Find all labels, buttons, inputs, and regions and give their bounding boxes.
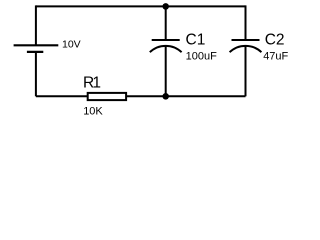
wire left branch lower	[35, 52, 37, 96]
wire top rail	[36, 5, 246, 7]
capacitor C1 curved plate	[150, 46, 182, 52]
svg-text:R1: R1	[83, 75, 100, 92]
wire bottom rail	[36, 95, 246, 97]
wire left branch upper	[35, 5, 37, 44]
battery V1 positive plate	[14, 44, 59, 46]
capacitor C1 top plate	[152, 39, 180, 41]
capacitor C2 curved plate	[230, 46, 262, 52]
capacitor C2 top plate	[232, 39, 260, 41]
node junction dot top	[162, 3, 169, 10]
wire right branch lower	[245, 46, 247, 97]
node junction dot bottom	[162, 93, 169, 100]
wire C1 branch lower	[165, 46, 167, 97]
wire C1 branch upper	[165, 6, 167, 40]
svg-text:47uF: 47uF	[263, 51, 288, 63]
svg-text:C2: C2	[265, 31, 285, 48]
battery V1 negative plate	[27, 51, 43, 53]
svg-text:C1: C1	[186, 32, 206, 49]
resistor R1	[88, 93, 126, 100]
svg-text:10V: 10V	[62, 39, 81, 51]
svg-text:100uF: 100uF	[186, 51, 217, 63]
wire right branch upper	[245, 5, 247, 40]
svg-text:10K: 10K	[83, 106, 103, 118]
